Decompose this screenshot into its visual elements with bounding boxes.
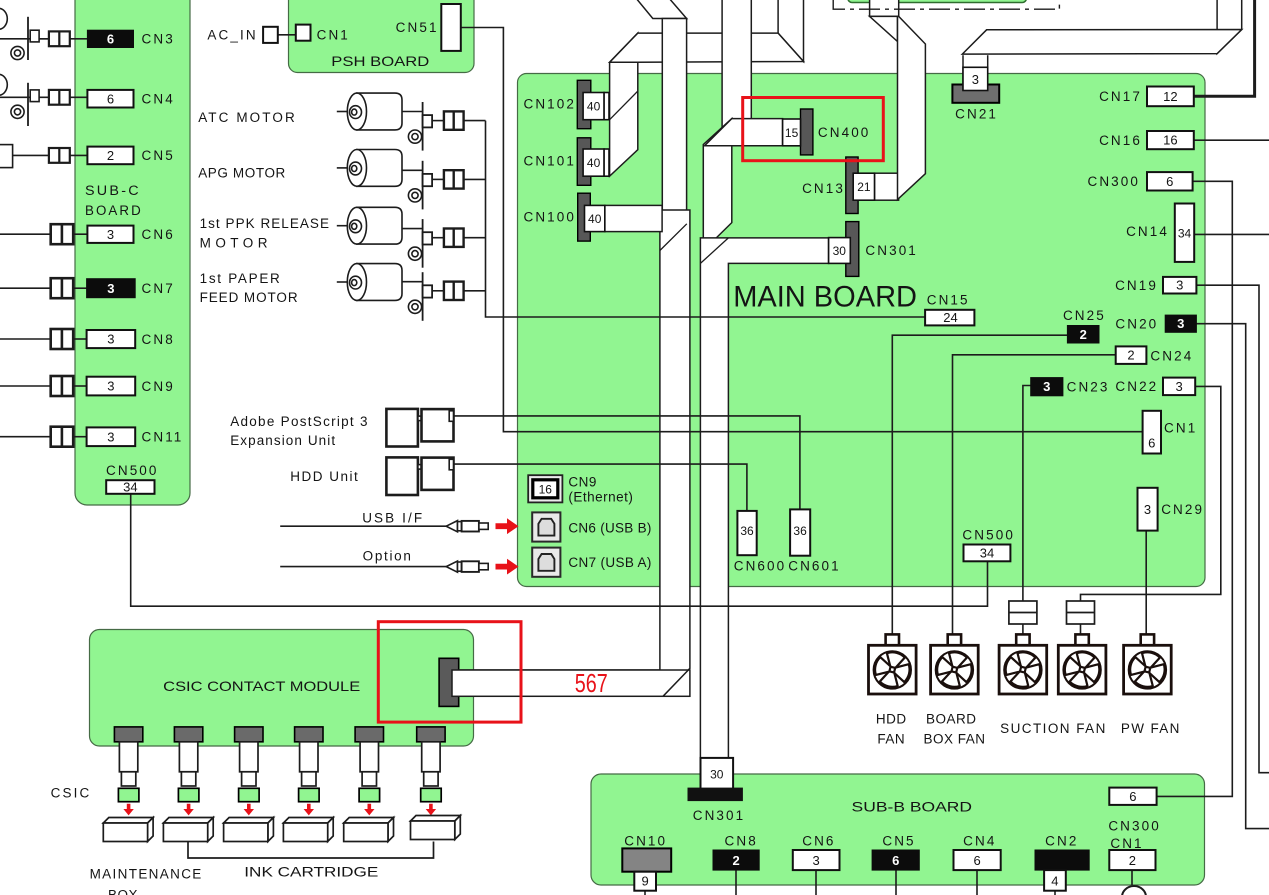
svg-text:CN51: CN51 bbox=[396, 20, 439, 35]
svg-text:CSIC CONTACT MODULE: CSIC CONTACT MODULE bbox=[163, 678, 360, 694]
svg-text:CN6 (USB B): CN6 (USB B) bbox=[568, 521, 652, 536]
svg-text:CN9: CN9 bbox=[568, 475, 597, 490]
svg-text:1st PAPER: 1st PAPER bbox=[200, 271, 281, 286]
svg-text:CN601: CN601 bbox=[788, 559, 841, 574]
svg-text:2: 2 bbox=[1080, 327, 1087, 342]
svg-text:36: 36 bbox=[793, 524, 807, 538]
svg-text:CN16: CN16 bbox=[1099, 133, 1142, 148]
svg-text:3: 3 bbox=[107, 379, 114, 394]
svg-text:34: 34 bbox=[1178, 226, 1192, 240]
svg-text:FEED MOTOR: FEED MOTOR bbox=[200, 290, 299, 305]
svg-text:30: 30 bbox=[710, 767, 724, 781]
svg-text:CN14: CN14 bbox=[1126, 224, 1169, 239]
svg-text:HDD: HDD bbox=[876, 711, 907, 726]
svg-text:16: 16 bbox=[539, 482, 553, 496]
svg-text:CN500: CN500 bbox=[106, 463, 159, 478]
svg-text:BOX: BOX bbox=[108, 888, 138, 895]
svg-text:BOX FAN: BOX FAN bbox=[923, 732, 985, 747]
svg-text:USB I/F: USB I/F bbox=[362, 510, 422, 525]
svg-text:3: 3 bbox=[812, 853, 819, 868]
svg-text:3: 3 bbox=[107, 281, 114, 296]
svg-text:PSH BOARD: PSH BOARD bbox=[331, 53, 429, 69]
svg-text:CN13: CN13 bbox=[802, 181, 845, 196]
svg-text:AC_IN: AC_IN bbox=[207, 28, 257, 43]
svg-text:CN22: CN22 bbox=[1115, 379, 1158, 394]
svg-text:CN7: CN7 bbox=[142, 281, 175, 296]
svg-text:CN100: CN100 bbox=[523, 210, 576, 225]
svg-text:CN10: CN10 bbox=[624, 834, 667, 849]
svg-text:CN25: CN25 bbox=[1063, 308, 1106, 323]
svg-text:MAINTENANCE: MAINTENANCE bbox=[90, 867, 202, 882]
svg-text:BOARD: BOARD bbox=[85, 203, 143, 218]
svg-text:CN5: CN5 bbox=[882, 834, 915, 849]
svg-text:CN8: CN8 bbox=[725, 834, 758, 849]
svg-text:SUB-B BOARD: SUB-B BOARD bbox=[852, 799, 973, 815]
svg-text:CN29: CN29 bbox=[1161, 502, 1204, 517]
svg-text:CN102: CN102 bbox=[523, 96, 576, 111]
svg-text:INK CARTRIDGE: INK CARTRIDGE bbox=[244, 863, 378, 879]
svg-text:Expansion Unit: Expansion Unit bbox=[230, 433, 335, 448]
svg-text:6: 6 bbox=[1166, 174, 1173, 189]
svg-text:CN8: CN8 bbox=[142, 332, 175, 347]
svg-text:3: 3 bbox=[1177, 316, 1184, 331]
svg-text:2: 2 bbox=[1129, 853, 1136, 868]
svg-text:CN21: CN21 bbox=[955, 106, 998, 121]
svg-text:CN11: CN11 bbox=[142, 430, 184, 445]
svg-text:Adobe PostScript 3: Adobe PostScript 3 bbox=[230, 414, 368, 429]
svg-text:PW FAN: PW FAN bbox=[1121, 721, 1180, 736]
svg-text:16: 16 bbox=[1163, 133, 1177, 148]
svg-text:3: 3 bbox=[1175, 379, 1182, 394]
svg-text:HDD Unit: HDD Unit bbox=[290, 469, 358, 484]
svg-text:CN6: CN6 bbox=[802, 834, 835, 849]
svg-text:CN1: CN1 bbox=[1110, 836, 1143, 851]
svg-text:3: 3 bbox=[972, 72, 979, 87]
svg-text:1st PPK RELEASE: 1st PPK RELEASE bbox=[200, 216, 330, 231]
svg-text:6: 6 bbox=[107, 32, 114, 47]
svg-text:3: 3 bbox=[107, 429, 114, 444]
svg-text:6: 6 bbox=[107, 91, 114, 106]
svg-text:9: 9 bbox=[641, 874, 648, 889]
svg-text:40: 40 bbox=[588, 212, 602, 226]
svg-text:CN400: CN400 bbox=[818, 125, 871, 140]
svg-text:34: 34 bbox=[980, 545, 994, 560]
svg-text:MAIN BOARD: MAIN BOARD bbox=[733, 280, 917, 313]
svg-text:CN101: CN101 bbox=[523, 154, 576, 169]
svg-text:CN1: CN1 bbox=[1164, 421, 1197, 436]
svg-text:3: 3 bbox=[107, 227, 114, 242]
svg-text:CSIC: CSIC bbox=[51, 786, 92, 801]
svg-text:3: 3 bbox=[107, 332, 114, 347]
svg-text:567: 567 bbox=[575, 668, 608, 698]
svg-text:APG MOTOR: APG MOTOR bbox=[198, 165, 286, 180]
svg-text:CN300: CN300 bbox=[1087, 174, 1140, 189]
svg-text:36: 36 bbox=[740, 524, 754, 538]
svg-text:CN9: CN9 bbox=[142, 379, 175, 394]
svg-text:34: 34 bbox=[123, 480, 137, 495]
svg-text:CN23: CN23 bbox=[1067, 380, 1110, 395]
svg-text:24: 24 bbox=[943, 310, 957, 325]
svg-text:2: 2 bbox=[1127, 348, 1134, 363]
svg-text:SUB-C: SUB-C bbox=[85, 183, 141, 198]
svg-text:MOTOR: MOTOR bbox=[200, 235, 268, 250]
svg-text:15: 15 bbox=[785, 126, 799, 140]
svg-text:CN4: CN4 bbox=[142, 92, 175, 107]
svg-text:CN19: CN19 bbox=[1115, 278, 1158, 293]
svg-text:40: 40 bbox=[587, 156, 601, 170]
svg-text:30: 30 bbox=[833, 244, 847, 258]
svg-text:CN15: CN15 bbox=[927, 293, 970, 308]
svg-text:CN24: CN24 bbox=[1150, 349, 1193, 364]
svg-text:SUCTION FAN: SUCTION FAN bbox=[1000, 721, 1106, 736]
svg-text:2: 2 bbox=[107, 148, 114, 163]
svg-text:CN6: CN6 bbox=[142, 227, 175, 242]
svg-text:6: 6 bbox=[892, 853, 899, 868]
svg-text:CN600: CN600 bbox=[734, 559, 787, 574]
svg-text:12: 12 bbox=[1163, 89, 1177, 104]
svg-text:CN5: CN5 bbox=[142, 148, 175, 163]
svg-text:6: 6 bbox=[1148, 436, 1155, 451]
svg-text:CN20: CN20 bbox=[1115, 317, 1158, 332]
svg-text:4: 4 bbox=[1051, 874, 1058, 889]
svg-text:FAN: FAN bbox=[877, 732, 905, 747]
svg-text:CN1: CN1 bbox=[317, 28, 350, 43]
svg-text:CN301: CN301 bbox=[865, 243, 918, 258]
svg-text:2: 2 bbox=[732, 853, 739, 868]
svg-text:CN17: CN17 bbox=[1099, 89, 1142, 104]
svg-text:3: 3 bbox=[1144, 502, 1151, 517]
svg-text:40: 40 bbox=[587, 100, 601, 114]
svg-text:CN300: CN300 bbox=[1108, 819, 1161, 834]
svg-text:CN301: CN301 bbox=[693, 808, 746, 823]
svg-text:CN3: CN3 bbox=[142, 32, 175, 47]
svg-text:(Ethernet): (Ethernet) bbox=[568, 490, 633, 505]
svg-text:6: 6 bbox=[973, 853, 980, 868]
svg-text:21: 21 bbox=[857, 180, 871, 194]
svg-text:ATC MOTOR: ATC MOTOR bbox=[198, 110, 295, 125]
svg-text:Option: Option bbox=[363, 548, 412, 563]
svg-text:BOARD: BOARD bbox=[926, 711, 977, 726]
svg-text:CN500: CN500 bbox=[962, 527, 1015, 542]
svg-text:CN4: CN4 bbox=[963, 834, 996, 849]
svg-text:6: 6 bbox=[1129, 789, 1136, 804]
svg-text:3: 3 bbox=[1043, 379, 1050, 394]
svg-text:3: 3 bbox=[1176, 278, 1183, 293]
svg-text:CN2: CN2 bbox=[1045, 834, 1078, 849]
svg-text:CN7 (USB A): CN7 (USB A) bbox=[568, 555, 652, 570]
